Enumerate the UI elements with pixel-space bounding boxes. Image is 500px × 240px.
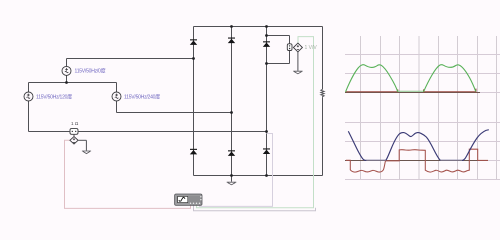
svg-text:115V/50Hz/120度: 115V/50Hz/120度	[36, 93, 72, 100]
svg-text:115V/50Hz/240度: 115V/50Hz/240度	[124, 93, 160, 100]
svg-text:1 Ω: 1 Ω	[71, 121, 79, 126]
svg-text:115V/50Hz/0度: 115V/50Hz/0度	[75, 68, 106, 75]
svg-text:1 V/V: 1 V/V	[305, 45, 318, 51]
